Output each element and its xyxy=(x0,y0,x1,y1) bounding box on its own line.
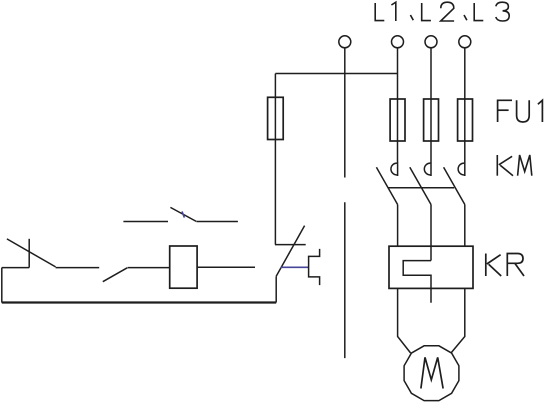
wire: KR box to motor (right) xyxy=(451,288,464,352)
wire: KM contact 3 to KR box xyxy=(464,205,466,247)
label L1.L2.L3 xyxy=(375,2,509,21)
contactor KM contact 1: moving blade xyxy=(376,167,397,204)
fuse FU1 pole 1 xyxy=(390,99,405,141)
wire: stem from circle 2 to fuse 1 xyxy=(397,48,399,99)
stop button NC blade xyxy=(7,239,56,267)
motor letter M xyxy=(421,357,443,388)
wire: stem from circle 3 to fuse 2 xyxy=(430,48,432,99)
label FU1 xyxy=(498,100,543,122)
wire: stop to start xyxy=(56,267,100,269)
stop button NC tick xyxy=(28,239,30,268)
wire: stem from circle 4 to fuse 3 xyxy=(464,48,466,99)
contactor KM contact 3: moving blade xyxy=(444,167,465,204)
KR NC contact: fixed bar xyxy=(275,244,306,246)
coil KM xyxy=(170,246,197,288)
blue grip tick on aux blade xyxy=(182,211,184,217)
wire: KM contact 1 to KR box xyxy=(397,205,399,247)
KR NC contact: moving blade xyxy=(276,226,304,277)
wire: top horizontal tap to control circuit xyxy=(275,73,397,75)
wire: start to coil xyxy=(128,267,170,269)
contactor KM contact 3: fixed hook xyxy=(458,162,465,177)
wire through fuse 2 xyxy=(430,99,432,162)
control bottom wire xyxy=(2,301,276,303)
wire: KR contact to bottom wire xyxy=(275,276,277,302)
label KM xyxy=(497,155,532,176)
stop button lead xyxy=(2,267,29,269)
thermal relay KR box xyxy=(389,246,473,288)
fuse FU1 pole 2 xyxy=(424,99,439,141)
wire: KR box to motor (left) xyxy=(398,288,411,353)
KM auxiliary contact: left lead xyxy=(123,221,168,223)
wire being drawn (blue) xyxy=(281,266,309,268)
KM mechanical linkage line xyxy=(388,187,454,189)
KM auxiliary contact: right lead xyxy=(196,221,238,223)
terminal circle 3 (L2) xyxy=(425,36,437,48)
motor M circle xyxy=(404,346,459,401)
fuse FU1 pole 3 xyxy=(458,99,473,141)
terminal circle 1 xyxy=(339,36,351,48)
contactor KM contact 1: fixed hook xyxy=(391,162,398,177)
wire: upper segment of middle line from circle 1 xyxy=(344,48,346,178)
wire: control branch vertical xyxy=(274,74,276,245)
label KR xyxy=(486,254,524,277)
contactor KM contact 2: moving blade xyxy=(410,167,431,204)
KR trip actuator bracket xyxy=(309,249,320,285)
terminal circle 2 (L1) xyxy=(392,36,404,48)
wire: left vertical riser xyxy=(1,268,3,303)
wire: coil to KR contact xyxy=(197,266,255,268)
terminal circle 4 (L3) xyxy=(459,36,471,48)
start button NO blade xyxy=(103,268,127,282)
wire through fuse 3 xyxy=(464,99,466,162)
control fuse xyxy=(268,97,284,139)
KR heater element xyxy=(403,261,431,303)
KM auxiliary contact: blade xyxy=(170,207,196,221)
wire: KM contact 2 to KR heater xyxy=(430,205,432,261)
wire through fuse 1 xyxy=(397,99,399,162)
contactor KM contact 2: fixed hook xyxy=(424,162,431,177)
wire: lower segment of middle line xyxy=(344,202,346,358)
